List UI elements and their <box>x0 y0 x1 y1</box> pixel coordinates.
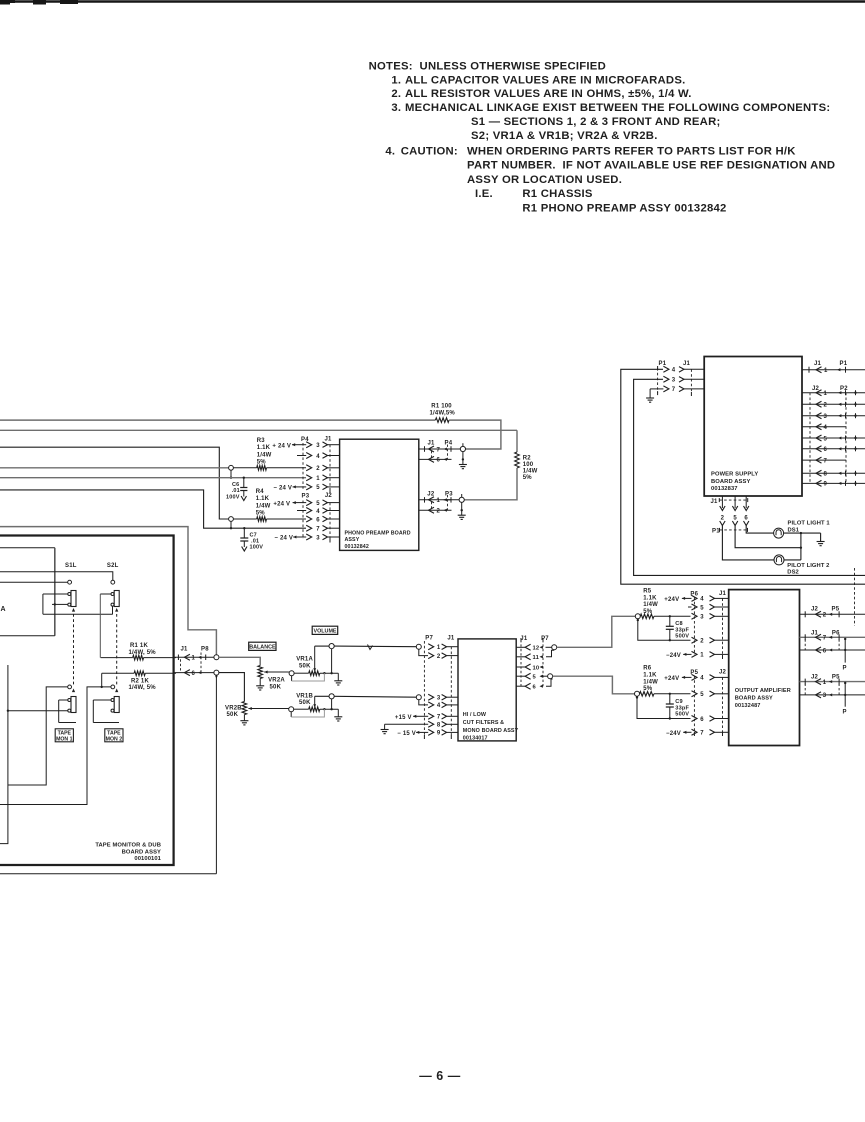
svg-text:R1 PHONO PREAMP ASSY 00132842: R1 PHONO PREAMP ASSY 00132842 <box>522 203 726 215</box>
jack J-out2 <box>461 494 463 497</box>
svg-text:10: 10 <box>533 665 540 671</box>
svg-text:PILOT LIGHT 2: PILOT LIGHT 2 <box>787 563 829 569</box>
svg-text:7: 7 <box>437 715 441 721</box>
resistor R1 1K <box>101 643 176 660</box>
pot VR2A <box>258 666 289 691</box>
svg-text:J1: J1 <box>719 591 727 597</box>
svg-text:6: 6 <box>192 671 196 677</box>
svg-text:6: 6 <box>437 458 441 464</box>
resistor R6 <box>640 666 691 697</box>
svg-text:C8: C8 <box>675 621 683 627</box>
svg-text:+24V: +24V <box>664 597 679 603</box>
svg-text:4: 4 <box>700 597 704 603</box>
svg-text:P3: P3 <box>445 492 453 498</box>
svg-text:3: 3 <box>316 443 320 449</box>
svg-text:CAUTION:: CAUTION: <box>401 146 458 158</box>
svg-text:P: P <box>843 666 847 672</box>
connector P3/J2 phono input <box>302 493 340 543</box>
connector J2/P2 power right <box>802 386 865 488</box>
svg-text:1: 1 <box>437 645 441 651</box>
wire <box>638 620 691 640</box>
svg-text:1/4W,5%: 1/4W,5% <box>430 411 456 417</box>
svg-text:J1: J1 <box>428 441 436 447</box>
svg-text:7: 7 <box>824 458 828 464</box>
svg-text:2: 2 <box>721 516 725 522</box>
wire <box>449 420 501 449</box>
switch TAPE MON 2 <box>93 685 119 723</box>
svg-text:5: 5 <box>316 501 320 507</box>
connector J2/P5 speaker <box>800 607 865 619</box>
jack J-vol2 <box>329 694 334 699</box>
jack J-f1 <box>416 644 421 649</box>
label -24V <box>666 731 692 737</box>
wire <box>0 547 55 549</box>
connector P1 pilot <box>712 521 749 535</box>
svg-text:500V: 500V <box>675 712 689 718</box>
wire <box>54 548 56 636</box>
wire <box>8 687 68 785</box>
svg-text:00134017: 00134017 <box>463 736 488 742</box>
wire <box>557 616 636 647</box>
svg-text:P4: P4 <box>445 441 453 447</box>
svg-text:2: 2 <box>437 509 441 515</box>
svg-text:P2: P2 <box>840 386 848 392</box>
svg-text:ASSY: ASSY <box>345 537 360 543</box>
label -24V <box>666 653 692 659</box>
label TAPE MON 1 <box>55 729 73 743</box>
svg-text:+24V: +24V <box>664 676 679 682</box>
svg-text:1.1K: 1.1K <box>643 595 657 601</box>
label BALANCE <box>249 642 276 650</box>
svg-text:9: 9 <box>437 731 441 737</box>
svg-text:J2: J2 <box>325 493 333 499</box>
svg-text:VR1B: VR1B <box>296 693 313 699</box>
pilot light DS1 <box>774 521 831 539</box>
wire <box>219 657 260 665</box>
svg-text:J1: J1 <box>325 437 333 443</box>
pot VR1A <box>289 646 338 681</box>
svg-text:1.1K: 1.1K <box>256 496 270 502</box>
ground <box>337 709 339 717</box>
jack J-g12 <box>546 646 552 648</box>
svg-text:−24V: −24V <box>666 731 681 737</box>
svg-text:3: 3 <box>316 535 320 541</box>
svg-text:5: 5 <box>700 605 704 611</box>
svg-text:4: 4 <box>316 454 320 460</box>
wire <box>546 679 553 686</box>
svg-text:1: 1 <box>316 476 320 482</box>
svg-text:CUT FILTERS &: CUT FILTERS & <box>463 720 504 726</box>
svg-text:− 24 V: − 24 V <box>273 486 292 492</box>
svg-text:P1: P1 <box>840 361 848 367</box>
svg-text:7: 7 <box>700 731 704 737</box>
label +24V <box>664 676 691 682</box>
wire <box>297 455 306 457</box>
svg-text:3: 3 <box>823 693 827 699</box>
svg-text:1: 1 <box>437 498 441 504</box>
svg-text:00132842: 00132842 <box>345 544 369 550</box>
svg-text:J2: J2 <box>811 675 819 681</box>
svg-text:ASSY OR LOCATION USED.: ASSY OR LOCATION USED. <box>467 174 622 186</box>
phono preamp board U-phono <box>340 439 419 550</box>
svg-text:PHONO PREAMP BOARD: PHONO PREAMP BOARD <box>345 530 411 536</box>
svg-text:J1: J1 <box>814 361 822 367</box>
svg-text:POWER SUPPLY: POWER SUPPLY <box>711 472 758 478</box>
svg-text:50K: 50K <box>299 700 311 706</box>
wire <box>546 650 554 657</box>
jack J-bal1 <box>214 655 219 660</box>
svg-text:4.: 4. <box>385 146 395 158</box>
wire <box>637 698 691 719</box>
svg-text:50K: 50K <box>227 712 239 718</box>
wire <box>0 477 306 479</box>
svg-text:8: 8 <box>824 472 828 478</box>
svg-text:.01: .01 <box>232 488 240 494</box>
svg-text:MONO BOARD ASSY: MONO BOARD ASSY <box>463 728 519 734</box>
svg-text:1/4W: 1/4W <box>643 602 658 608</box>
svg-text:00100101: 00100101 <box>134 856 161 862</box>
switch S2L <box>100 563 119 614</box>
svg-text:100: 100 <box>523 462 534 468</box>
svg-text:50K: 50K <box>299 663 311 669</box>
svg-text:P3: P3 <box>302 494 310 500</box>
svg-text:R4: R4 <box>256 489 265 495</box>
capacitor C9 <box>666 694 690 719</box>
resistor R2 1K <box>102 671 176 691</box>
wire <box>650 388 663 390</box>
svg-text:7: 7 <box>316 527 320 533</box>
label TAPE MON 2 <box>105 729 123 743</box>
svg-text:+15 V: +15 V <box>395 715 412 721</box>
svg-text:6: 6 <box>823 648 827 654</box>
resistor R2 <box>515 430 538 481</box>
wire <box>315 695 329 697</box>
wire <box>784 559 801 561</box>
svg-text:1: 1 <box>824 391 828 397</box>
wire <box>219 673 245 702</box>
svg-text:4: 4 <box>700 676 704 682</box>
resistor R3 <box>233 438 306 470</box>
svg-text:P5: P5 <box>832 607 840 613</box>
jack J-g5 <box>542 675 548 677</box>
ground <box>649 389 651 398</box>
svg-text:R1 100: R1 100 <box>431 404 452 410</box>
svg-text:DS2: DS2 <box>787 570 799 576</box>
svg-text:HI / LOW: HI / LOW <box>463 712 487 718</box>
svg-text:1/4W: 1/4W <box>257 452 272 458</box>
resistor R4 <box>233 489 306 521</box>
svg-text:S1 — SECTIONS 1, 2 & 3 FRONT A: S1 — SECTIONS 1, 2 & 3 FRONT AND REAR; <box>471 116 721 128</box>
wire <box>0 581 68 583</box>
ground <box>259 679 261 686</box>
connector P6/J1 output amp <box>690 591 728 659</box>
svg-text:R1 1K: R1 1K <box>130 643 148 649</box>
label +24V <box>273 501 306 507</box>
wire <box>854 568 856 626</box>
jack shield J-R4 <box>229 517 234 522</box>
wire <box>99 594 101 658</box>
svg-text:6: 6 <box>824 447 828 453</box>
svg-text:2: 2 <box>437 654 441 660</box>
svg-text:9: 9 <box>824 482 828 488</box>
label +24V <box>272 443 306 449</box>
svg-text:P7: P7 <box>425 636 433 642</box>
wire <box>722 526 774 560</box>
svg-text:BOARD ASSY: BOARD ASSY <box>735 696 773 702</box>
jack J-bal6 <box>214 670 219 675</box>
svg-text:2: 2 <box>824 403 828 409</box>
wire <box>0 635 55 637</box>
wire <box>784 532 821 534</box>
wire <box>0 490 306 528</box>
svg-text:J2: J2 <box>719 670 727 676</box>
pot VR1B <box>289 693 339 717</box>
mech link S1 <box>73 614 75 685</box>
connector J2/P3 phono output <box>419 492 462 515</box>
svg-text:1.1K: 1.1K <box>643 673 657 679</box>
connector J1/P7 filter out <box>516 636 549 691</box>
svg-text:1/4W: 1/4W <box>643 679 658 685</box>
wire <box>315 645 330 647</box>
svg-text:R3: R3 <box>257 438 266 444</box>
svg-text:11: 11 <box>533 655 540 661</box>
wire <box>385 723 429 725</box>
svg-text:4: 4 <box>824 425 828 431</box>
svg-text:− 24 V: − 24 V <box>274 536 293 542</box>
svg-text:MON 1: MON 1 <box>56 736 73 742</box>
svg-text:2: 2 <box>823 613 827 619</box>
svg-text:VR1A: VR1A <box>296 657 313 663</box>
wire <box>553 676 635 694</box>
svg-text:ALL RESISTOR VALUES ARE IN OHM: ALL RESISTOR VALUES ARE IN OHMS, ±5%, 1/… <box>405 88 692 100</box>
svg-text:7: 7 <box>437 447 441 453</box>
svg-text:2.: 2. <box>391 88 401 100</box>
svg-text:+ 24 V: + 24 V <box>272 443 291 449</box>
svg-text:VOLUME: VOLUME <box>313 628 336 634</box>
capacitor C7 <box>240 527 263 551</box>
svg-text:P8: P8 <box>201 647 209 653</box>
jack J-out1 <box>462 443 464 446</box>
svg-text:S2; VR1A & VR1B; VR2A & VR2B.: S2; VR1A & VR1B; VR2A & VR2B. <box>471 130 658 142</box>
wire <box>0 572 113 581</box>
connector P4/J1 phono input <box>301 437 340 493</box>
svg-text:5: 5 <box>316 485 320 491</box>
svg-text:P1: P1 <box>659 361 667 367</box>
power supply board U-ps <box>704 357 802 497</box>
capacitor C6 <box>226 477 247 501</box>
svg-text:A: A <box>1 606 6 613</box>
svg-text:− 15 V: − 15 V <box>397 731 416 737</box>
wire <box>0 527 216 655</box>
svg-text:33pF: 33pF <box>675 705 689 711</box>
svg-text:6: 6 <box>700 717 704 723</box>
svg-text:1/4W: 1/4W <box>523 469 538 475</box>
pilot light DS2 <box>774 555 830 576</box>
svg-text:8: 8 <box>437 723 441 729</box>
connector J1/P4 phono output <box>419 441 463 464</box>
ground <box>461 510 463 515</box>
svg-text:1/4W: 1/4W <box>256 503 271 509</box>
svg-text:00132487: 00132487 <box>735 703 761 709</box>
wire <box>0 467 229 469</box>
svg-text:S2L: S2L <box>107 563 119 569</box>
svg-text:50K: 50K <box>270 684 282 690</box>
svg-text:5: 5 <box>824 436 828 442</box>
label +24V <box>664 597 691 603</box>
connector J1/P6 speaker <box>800 631 865 672</box>
label -15V <box>397 731 428 737</box>
svg-text:R2: R2 <box>523 456 532 462</box>
svg-text:J1: J1 <box>711 499 719 505</box>
jack J-r5 <box>635 614 640 619</box>
svg-text:WHEN ORDERING PARTS REFER TO P: WHEN ORDERING PARTS REFER TO PARTS LIST … <box>467 146 796 158</box>
svg-text:2: 2 <box>316 466 320 472</box>
svg-text:BOARD ASSY: BOARD ASSY <box>122 849 161 855</box>
svg-text:J1: J1 <box>447 636 455 642</box>
svg-text:6: 6 <box>316 517 320 523</box>
switch S1L <box>43 563 113 614</box>
svg-text:TAPE MONITOR & DUB: TAPE MONITOR & DUB <box>95 843 161 849</box>
svg-text:1.: 1. <box>391 74 401 86</box>
svg-text:5%: 5% <box>643 686 653 692</box>
svg-text:4: 4 <box>672 368 676 374</box>
label VOLUME <box>312 626 338 634</box>
wire <box>0 687 111 805</box>
ground <box>337 673 339 681</box>
pot VR2B <box>225 702 289 719</box>
svg-text:5%: 5% <box>643 609 653 615</box>
svg-text:R2 1K: R2 1K <box>131 678 149 684</box>
jack J-r6 <box>635 691 640 696</box>
wire <box>8 710 68 712</box>
resistor R1 <box>430 404 456 423</box>
svg-text:5%: 5% <box>523 475 533 481</box>
svg-text:100V: 100V <box>226 495 240 501</box>
svg-text:4: 4 <box>437 703 441 709</box>
connector P5/J2 output amp <box>690 670 728 737</box>
svg-text:3: 3 <box>672 378 676 384</box>
svg-text:100V: 100V <box>250 545 264 551</box>
svg-text:3: 3 <box>700 615 704 621</box>
svg-text:1: 1 <box>824 368 828 374</box>
svg-text:7: 7 <box>672 387 676 393</box>
svg-text:J2: J2 <box>811 607 819 613</box>
svg-text:3.: 3. <box>391 102 401 114</box>
svg-text:P1: P1 <box>712 529 720 535</box>
svg-text:5: 5 <box>700 692 704 698</box>
svg-text:P7: P7 <box>541 636 549 642</box>
label +15V <box>395 715 428 721</box>
svg-text:12: 12 <box>533 646 540 652</box>
wire <box>746 526 773 534</box>
wire <box>800 533 802 560</box>
svg-text:— 6 —: — 6 — <box>419 1069 460 1083</box>
svg-text:R5: R5 <box>643 588 652 594</box>
connector J1/P8 balance <box>174 647 214 677</box>
page number -6- <box>419 1069 460 1083</box>
wire <box>0 419 435 421</box>
svg-text:5: 5 <box>533 675 537 681</box>
wire <box>334 695 416 698</box>
svg-text:PILOT LIGHT 1: PILOT LIGHT 1 <box>788 521 831 527</box>
wire <box>621 369 865 584</box>
switch TAPE MON 1 <box>59 685 76 723</box>
svg-text:VR2A: VR2A <box>268 678 285 684</box>
svg-text:MON 2: MON 2 <box>106 736 123 742</box>
svg-text:7: 7 <box>823 636 827 642</box>
resistor R5 <box>640 588 690 618</box>
svg-text:S1L: S1L <box>65 563 77 569</box>
svg-text:−24V: −24V <box>666 653 681 659</box>
svg-text:PART NUMBER. IF NOT AVAILABLE: PART NUMBER. IF NOT AVAILABLE USE REF DE… <box>467 160 835 172</box>
connector J1 power bottom <box>711 496 749 522</box>
svg-text:1/4W, 5%: 1/4W, 5% <box>129 650 157 656</box>
svg-text:1: 1 <box>700 653 704 659</box>
wire <box>0 873 216 875</box>
svg-text:VR2B: VR2B <box>225 705 242 711</box>
svg-text:R1 CHASSIS: R1 CHASSIS <box>522 188 593 200</box>
wire <box>634 379 865 575</box>
svg-text:3: 3 <box>824 414 828 420</box>
svg-text:NOTES: UNLESS OTHERWISE SPECI: NOTES: UNLESS OTHERWISE SPECIFIED <box>369 61 606 73</box>
ground <box>820 533 822 541</box>
wire <box>0 665 8 844</box>
hi/low cut filter board U-filter <box>458 639 519 742</box>
svg-text:33pF: 33pF <box>675 627 689 633</box>
svg-text:5: 5 <box>733 516 737 522</box>
notes text block <box>369 61 836 215</box>
wire <box>735 526 801 548</box>
mech link S2 <box>116 614 118 685</box>
label -24V <box>273 485 306 491</box>
svg-text:4: 4 <box>316 509 320 515</box>
jack J-vol1 <box>329 644 334 649</box>
svg-text:R6: R6 <box>643 666 652 672</box>
svg-text:2: 2 <box>700 639 704 645</box>
svg-text:1.1K: 1.1K <box>257 445 271 451</box>
svg-text:P: P <box>843 710 847 716</box>
ground <box>384 724 386 729</box>
connector P7/J1 filter in <box>424 636 458 740</box>
svg-text:OUTPUT AMPLIFIER: OUTPUT AMPLIFIER <box>735 688 791 694</box>
svg-text:J1: J1 <box>683 361 691 367</box>
svg-text:500V: 500V <box>675 634 689 640</box>
wire <box>464 468 517 500</box>
svg-text:6: 6 <box>744 516 748 522</box>
wire <box>297 510 306 512</box>
connector P1/J1 power in <box>658 361 705 396</box>
svg-text:ALL CAPACITOR VALUES ARE IN MI: ALL CAPACITOR VALUES ARE IN MICROFARADS. <box>405 74 686 86</box>
label -24V <box>274 535 306 541</box>
svg-text:1: 1 <box>823 680 827 686</box>
svg-text:6: 6 <box>533 685 537 691</box>
jack shield J-R3 <box>229 465 234 470</box>
svg-text:5%: 5% <box>257 460 267 466</box>
svg-text:BOARD ASSY: BOARD ASSY <box>711 479 750 485</box>
ground <box>243 715 245 721</box>
wire <box>101 673 103 687</box>
svg-text:C9: C9 <box>675 699 683 705</box>
wire <box>0 429 517 431</box>
wire <box>334 645 416 648</box>
ground <box>462 459 464 464</box>
jack J-f3 <box>416 695 421 700</box>
output amplifier board U-amp <box>729 590 800 746</box>
svg-text:I.E.: I.E. <box>475 188 493 200</box>
wire <box>0 447 229 519</box>
svg-text:1: 1 <box>192 656 196 662</box>
connector J2/P5 speaker 2 <box>800 675 865 716</box>
